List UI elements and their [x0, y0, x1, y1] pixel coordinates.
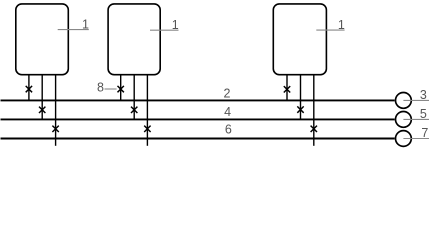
wire lead 3 of box 2 (through net 6): [146, 75, 148, 146]
leader line for label 1 (box 3): [316, 29, 344, 31]
wire bus line 2 (net 2): [1, 99, 395, 101]
svg-text:1: 1: [82, 18, 89, 32]
wire lead 1 of box 3 (to net 2): [286, 75, 288, 101]
connection cross on box1 lead1: [26, 86, 32, 92]
svg-text:4: 4: [224, 105, 231, 119]
svg-text:3: 3: [420, 88, 427, 102]
wire lead 3 of box 1 (through net 6): [55, 75, 57, 146]
connection cross on box1 lead2: [39, 107, 45, 113]
terminal circle 3: [396, 93, 412, 109]
wire lead 2 of box 2 (to net 4): [133, 75, 135, 120]
leader line for label 1 (box 1): [58, 29, 89, 31]
svg-text:1: 1: [338, 18, 345, 32]
device box 1 (leftmost unit): [16, 4, 69, 75]
leader line for label 1 (box 2): [150, 29, 179, 31]
label line for terminal 7: [403, 138, 429, 140]
label line for terminal 5: [403, 118, 429, 120]
device box 2 (middle unit): [108, 4, 160, 75]
connection cross on box2 lead3: [144, 126, 150, 132]
leader dash from label 8 to cross: [105, 88, 117, 90]
terminal circle 7: [396, 131, 412, 147]
wire bus line 6 (net 6): [1, 138, 395, 140]
svg-text:5: 5: [420, 107, 427, 121]
connection cross on box3 lead2: [297, 106, 303, 112]
connection cross on box1 lead3: [52, 126, 58, 132]
connection cross on box3 lead3: [311, 126, 317, 132]
label line for terminal 3: [403, 99, 429, 101]
terminal circle 5: [396, 112, 412, 128]
connection cross on box2 lead1 (item 8): [118, 86, 124, 92]
connection cross on box3 lead1: [284, 86, 290, 92]
connection cross on box2 lead2: [131, 107, 137, 113]
wire lead 1 of box 1 (to net 2): [28, 75, 30, 101]
wire lead 2 of box 3 (to net 4): [300, 75, 302, 120]
svg-text:8: 8: [97, 81, 104, 95]
svg-text:1: 1: [172, 18, 179, 32]
svg-text:7: 7: [421, 126, 428, 140]
wire lead 2 of box 1 (to net 4): [41, 75, 43, 120]
svg-text:2: 2: [224, 87, 231, 101]
svg-text:6: 6: [225, 122, 232, 136]
wire lead 1 of box 2 (to net 2): [120, 75, 122, 101]
device box 3 (rightmost unit): [273, 4, 326, 75]
wire bus line 4 (net 4): [1, 118, 395, 120]
wire lead 3 of box 3 (through net 6): [313, 75, 315, 146]
